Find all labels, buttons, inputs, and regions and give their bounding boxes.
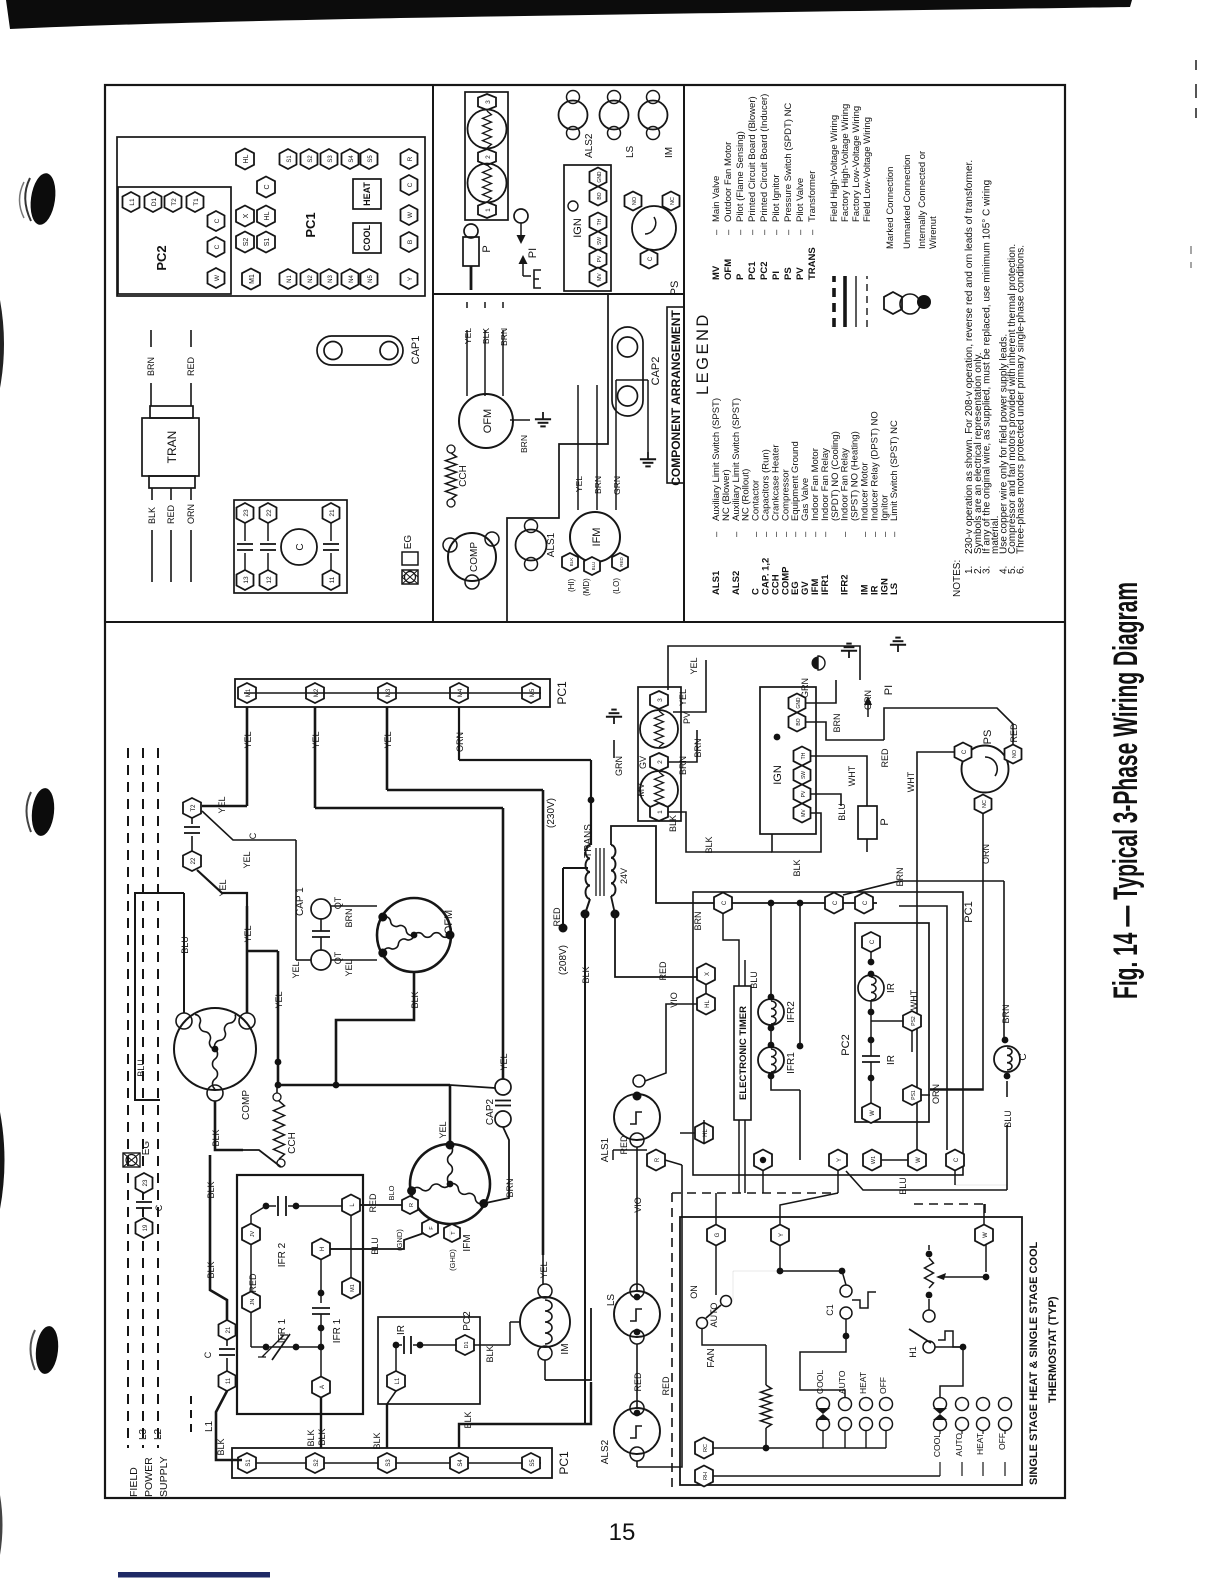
svg-text:PC1: PC1 (303, 212, 318, 237)
svg-text:C: C (264, 184, 271, 189)
svg-text:24V: 24V (619, 868, 629, 884)
svg-text:TRAN: TRAN (165, 431, 179, 464)
svg-text:(HI): (HI) (567, 578, 576, 592)
svg-text:IFR2: IFR2 (840, 574, 851, 595)
svg-text:YEL: YEL (217, 796, 227, 813)
svg-text:–: – (889, 531, 900, 537)
svg-text:BLK: BLK (216, 1438, 226, 1455)
svg-text:BRN: BRN (146, 357, 156, 376)
svg-text:P: P (735, 273, 746, 280)
svg-text:C: C (248, 832, 258, 839)
svg-text:BLK: BLK (206, 1261, 216, 1278)
svg-text:RED: RED (619, 557, 624, 567)
svg-text:LS: LS (606, 1294, 617, 1307)
svg-text:–: – (783, 229, 794, 235)
svg-text:LS: LS (625, 145, 636, 158)
svg-text:YEL: YEL (463, 328, 473, 344)
svg-text:PC1: PC1 (555, 681, 569, 705)
svg-text:AUTO: AUTO (954, 1433, 964, 1457)
svg-text:CAP1: CAP1 (410, 336, 422, 365)
svg-text:MV: MV (711, 265, 722, 280)
svg-text:BLK: BLK (306, 1429, 316, 1446)
svg-text:RED: RED (633, 1372, 643, 1392)
svg-text:N5: N5 (368, 275, 374, 283)
svg-text:23: 23 (243, 509, 250, 517)
svg-text:YEL: YEL (243, 925, 253, 942)
svg-text:15: 15 (609, 1519, 636, 1546)
svg-text:NC: NC (982, 800, 988, 808)
svg-text:ALS2: ALS2 (731, 571, 742, 595)
svg-text:YEL: YEL (274, 991, 284, 1008)
svg-text:2: 2 (485, 155, 492, 159)
svg-text:–: – (840, 531, 851, 537)
svg-text:BLK: BLK (372, 1432, 382, 1449)
svg-text:BLK: BLK (147, 507, 157, 524)
svg-text:Three-phase motors protected u: Three-phase motors protected under prima… (1016, 245, 1027, 554)
svg-text:C: C (722, 900, 728, 905)
svg-text:JV: JV (250, 1230, 256, 1237)
svg-text:S4: S4 (349, 155, 355, 163)
svg-text:BLK: BLK (481, 328, 491, 344)
svg-text:ORN: ORN (931, 1084, 941, 1104)
svg-text:23: 23 (143, 1179, 149, 1186)
svg-text:CAP2: CAP2 (485, 1099, 496, 1126)
svg-text:BO: BO (796, 718, 802, 725)
svg-text:ALS2: ALS2 (600, 1439, 611, 1464)
svg-text:H: H (320, 1247, 326, 1251)
svg-text:POWER: POWER (143, 1457, 155, 1497)
svg-text:ON: ON (689, 1285, 699, 1299)
svg-text:C: C (214, 244, 221, 249)
svg-text:BLK: BLK (668, 815, 678, 832)
svg-text:11: 11 (329, 576, 336, 583)
svg-text:Marked Connection: Marked Connection (885, 167, 896, 249)
svg-text:C1: C1 (825, 1304, 835, 1316)
svg-text:L1: L1 (395, 1377, 401, 1384)
svg-text:B: B (407, 240, 414, 244)
svg-text:BLK: BLK (206, 1181, 216, 1198)
svg-text:NO: NO (632, 196, 638, 205)
svg-text:COMPONENT ARRANGEMENT: COMPONENT ARRANGEMENT (669, 310, 683, 486)
svg-text:N1: N1 (287, 275, 293, 283)
svg-text:S3: S3 (328, 155, 334, 163)
svg-text:BRN: BRN (499, 328, 509, 346)
svg-text:C: C (648, 256, 654, 261)
svg-text:R: R (655, 1157, 661, 1162)
svg-text:Factory Low-Voltage Wiring: Factory Low-Voltage Wiring (851, 106, 862, 222)
svg-text:YEL: YEL (218, 879, 228, 896)
svg-text:S1: S1 (246, 1459, 252, 1467)
svg-text:C: C (870, 939, 876, 944)
svg-text:COOL: COOL (932, 1433, 942, 1457)
svg-text:G: G (715, 1232, 721, 1237)
svg-text:ALS1: ALS1 (711, 570, 722, 595)
svg-text:RED: RED (186, 356, 196, 376)
svg-text:BLU: BLU (1003, 1110, 1013, 1128)
svg-text:S1: S1 (264, 238, 271, 247)
svg-text:WHT: WHT (847, 765, 857, 786)
svg-text:S5: S5 (368, 155, 374, 163)
svg-text:IR: IR (396, 1325, 407, 1335)
svg-text:BLK: BLK (792, 859, 802, 876)
svg-text:22: 22 (191, 857, 197, 864)
svg-text:YEL: YEL (291, 961, 301, 978)
svg-text:C: C (1018, 1053, 1029, 1060)
svg-text:Pressure Switch (SPDT) NC: Pressure Switch (SPDT) NC (783, 103, 794, 222)
svg-text:YEL: YEL (242, 851, 252, 868)
svg-text:C: C (154, 1204, 164, 1211)
svg-text:HL: HL (243, 154, 250, 163)
svg-text:(GHD): (GHD) (448, 1249, 457, 1271)
svg-text:(MD): (MD) (582, 578, 591, 596)
svg-text:S4: S4 (458, 1459, 464, 1467)
svg-text:Field High-Voltage Wiring: Field High-Voltage Wiring (829, 115, 840, 222)
svg-text:WHT: WHT (909, 989, 919, 1010)
svg-text:RED: RED (552, 907, 562, 927)
svg-text:VIO: VIO (669, 992, 679, 1008)
svg-text:NO: NO (1012, 749, 1018, 758)
svg-text:PV: PV (597, 255, 603, 262)
svg-text:PC1: PC1 (963, 901, 975, 922)
svg-text:BRN: BRN (593, 476, 603, 494)
svg-text:ALS1: ALS1 (546, 532, 557, 557)
svg-text:COOL: COOL (362, 224, 372, 251)
svg-text:YEL: YEL (499, 1053, 509, 1070)
svg-text:W: W (214, 274, 221, 281)
svg-text:–: – (735, 229, 746, 235)
svg-text:22: 22 (266, 509, 273, 517)
svg-text:BLO: BLO (387, 1185, 396, 1200)
svg-text:–: – (723, 229, 734, 235)
svg-text:ALS1: ALS1 (600, 1137, 611, 1162)
svg-text:–: – (747, 229, 758, 235)
svg-text:Unmarked Connection: Unmarked Connection (902, 154, 913, 249)
svg-text:IFR1: IFR1 (820, 574, 831, 595)
svg-text:H1: H1 (908, 1346, 918, 1358)
svg-text:S3: S3 (386, 1459, 392, 1467)
svg-text:P: P (481, 245, 493, 252)
svg-text:BO: BO (597, 192, 603, 199)
svg-text:Printed Circuit Board (Inducer: Printed Circuit Board (Inducer) (759, 94, 770, 222)
svg-text:S1: S1 (287, 155, 293, 163)
svg-text:CCH: CCH (458, 465, 469, 487)
svg-text:21: 21 (226, 1326, 232, 1333)
svg-text:R: R (409, 1203, 415, 1207)
svg-text:N3: N3 (328, 275, 334, 283)
svg-text:Internally Connected or: Internally Connected or (917, 151, 928, 249)
svg-text:T2: T2 (191, 804, 197, 812)
svg-text:W: W (407, 211, 414, 218)
svg-text:TRANS: TRANS (807, 247, 818, 280)
svg-text:S2: S2 (243, 238, 250, 247)
svg-text:R: R (407, 156, 414, 161)
svg-text:ORN: ORN (186, 504, 196, 524)
svg-text:13: 13 (243, 576, 250, 584)
svg-text:OFM: OFM (482, 409, 494, 433)
svg-text:Fig. 14 — Typical 3-Phase Wiri: Fig. 14 — Typical 3-Phase Wiring Diagram (1107, 582, 1145, 999)
svg-text:GRN: GRN (614, 756, 624, 776)
svg-text:PS: PS (982, 730, 994, 745)
svg-text:Wirenut: Wirenut (928, 216, 939, 249)
svg-text:L3: L3 (138, 1428, 149, 1440)
svg-text:BLK: BLK (485, 1345, 495, 1362)
svg-text:HEAT: HEAT (975, 1433, 985, 1455)
svg-text:HL: HL (264, 211, 271, 220)
svg-text:N2: N2 (308, 275, 314, 283)
svg-text:C: C (214, 218, 221, 223)
svg-text:–: – (731, 531, 742, 537)
svg-text:PS1: PS1 (911, 1090, 917, 1100)
svg-text:Y: Y (779, 1233, 785, 1237)
svg-text:BRN: BRN (693, 911, 703, 930)
svg-text:BLK: BLK (704, 836, 714, 853)
svg-text:YEL: YEL (383, 731, 393, 748)
svg-text:Transformer: Transformer (807, 171, 818, 222)
svg-text:–: – (759, 229, 770, 235)
svg-text:PC2: PC2 (759, 262, 770, 280)
svg-text:YEL: YEL (243, 731, 253, 748)
svg-text:X: X (705, 972, 711, 976)
svg-text:EG: EG (403, 535, 414, 550)
svg-text:VIO: VIO (633, 1197, 643, 1213)
svg-text:IFM: IFM (462, 1234, 473, 1251)
svg-text:CCH: CCH (287, 1132, 298, 1154)
svg-text:Limit Switch (SPST) NC: Limit Switch (SPST) NC (889, 420, 900, 521)
svg-text:S2: S2 (314, 1459, 320, 1467)
svg-text:C: C (863, 900, 869, 905)
svg-text:RED: RED (880, 748, 890, 768)
svg-text:W: W (870, 1110, 876, 1116)
svg-text:Y: Y (837, 1158, 843, 1162)
svg-text:RED: RED (661, 1376, 671, 1396)
svg-text:NC: NC (670, 197, 676, 205)
svg-text:–: – (711, 531, 722, 537)
svg-text:HEAT: HEAT (858, 1372, 868, 1394)
svg-text:–: – (820, 531, 831, 537)
svg-text:BLU: BLU (837, 803, 847, 821)
svg-text:PS2: PS2 (911, 1016, 917, 1026)
svg-text:HEAT: HEAT (362, 182, 372, 206)
svg-text:2: 2 (657, 760, 664, 764)
svg-text:Pilot Ignitor: Pilot Ignitor (771, 174, 782, 222)
svg-text:19: 19 (143, 1224, 149, 1231)
svg-text:Pilot Valve: Pilot Valve (795, 178, 806, 222)
svg-text:IM: IM (560, 1343, 571, 1354)
svg-text:MV: MV (636, 783, 646, 797)
svg-text:RED: RED (248, 1273, 258, 1293)
svg-text:Field Low-Voltage Wiring: Field Low-Voltage Wiring (862, 117, 873, 222)
svg-text:YEL: YEL (574, 476, 584, 492)
svg-text:IR: IR (886, 1055, 897, 1065)
svg-text:BLK: BLK (569, 558, 574, 567)
svg-text:Main Valve: Main Valve (711, 176, 722, 222)
svg-text:W: W (916, 1157, 922, 1163)
svg-text:PI: PI (883, 685, 895, 695)
svg-text:OFF: OFF (997, 1433, 1007, 1450)
svg-text:YEL: YEL (689, 657, 699, 674)
svg-text:PI: PI (771, 271, 782, 280)
svg-text:11: 11 (226, 1377, 232, 1384)
svg-text:Factory High-Voltage Wiring: Factory High-Voltage Wiring (840, 104, 851, 222)
svg-text:IGN: IGN (572, 218, 584, 238)
svg-text:–: – (711, 229, 722, 235)
svg-text:BRN: BRN (1001, 1004, 1011, 1023)
svg-text:IFR 2: IFR 2 (277, 1242, 288, 1267)
svg-text:ALS2: ALS2 (584, 133, 595, 158)
svg-text:C: C (407, 182, 414, 187)
svg-text:RED: RED (368, 1193, 378, 1213)
svg-text:D1: D1 (464, 1341, 470, 1348)
svg-text:(230V): (230V) (546, 798, 557, 828)
svg-text:S2: S2 (308, 155, 314, 163)
svg-text:D1: D1 (151, 197, 158, 206)
svg-text:NOTES:: NOTES: (952, 560, 963, 597)
svg-text:BRN: BRN (344, 908, 354, 927)
svg-text:CAP2: CAP2 (650, 357, 662, 386)
svg-text:YEL: YEL (344, 959, 354, 976)
svg-text:IR: IR (886, 983, 897, 993)
svg-text:IFM: IFM (591, 528, 603, 547)
svg-text:YEL: YEL (311, 731, 321, 748)
svg-text:L1: L1 (204, 1420, 215, 1432)
svg-text:21: 21 (329, 509, 336, 517)
svg-text:PV: PV (801, 790, 807, 797)
svg-text:BLU: BLU (136, 1059, 146, 1077)
svg-text:BRN: BRN (678, 756, 688, 775)
svg-text:BRN: BRN (519, 435, 529, 453)
svg-text:SW: SW (801, 771, 807, 779)
svg-text:ELECTRONIC TIMER: ELECTRONIC TIMER (738, 1006, 749, 1100)
svg-text:M1: M1 (249, 274, 256, 284)
svg-text:RED: RED (1009, 723, 1019, 743)
svg-text:PC2: PC2 (462, 1311, 473, 1331)
svg-text:EG: EG (141, 1141, 152, 1156)
svg-text:IM: IM (664, 147, 675, 158)
svg-text:3: 3 (485, 100, 492, 104)
svg-text:C: C (833, 900, 839, 905)
svg-text:QT: QT (333, 951, 343, 964)
svg-text:PS: PS (669, 281, 681, 296)
svg-text:BLU: BLU (898, 1177, 908, 1195)
svg-text:PC2: PC2 (154, 245, 169, 270)
svg-text:–: – (807, 229, 818, 235)
svg-text:FAN: FAN (706, 1348, 717, 1367)
svg-text:If any of the original wire, a: If any of the original wire, as supplied… (982, 180, 993, 554)
svg-text:BRN: BRN (895, 867, 905, 886)
svg-text:YEL: YEL (539, 1261, 549, 1278)
svg-text:AUTO: AUTO (709, 1303, 719, 1328)
svg-text:–: – (771, 229, 782, 235)
svg-text:YEL: YEL (678, 689, 688, 706)
svg-text:LS: LS (889, 583, 900, 595)
svg-text:6.: 6. (1016, 566, 1027, 574)
svg-text:SUPPLY: SUPPLY (158, 1456, 170, 1497)
svg-text:RED: RED (166, 504, 176, 524)
svg-text:BRN: BRN (693, 738, 703, 757)
svg-text:RH: RH (703, 1472, 709, 1480)
svg-text:–: – (795, 229, 806, 235)
svg-text:W1: W1 (871, 1156, 877, 1164)
svg-text:T2: T2 (171, 198, 178, 206)
svg-text:IGN: IGN (772, 765, 784, 785)
svg-text:GND: GND (597, 171, 603, 183)
svg-text:TH: TH (597, 218, 603, 225)
svg-text:P: P (879, 818, 891, 825)
svg-text:BLU: BLU (749, 971, 759, 989)
svg-text:S5: S5 (530, 1459, 536, 1467)
svg-text:3.: 3. (982, 566, 993, 574)
svg-text:PC2: PC2 (840, 1034, 852, 1055)
svg-text:PI: PI (527, 248, 539, 258)
svg-text:PC1: PC1 (557, 1451, 571, 1475)
svg-text:C: C (295, 543, 306, 550)
svg-text:MV: MV (801, 809, 807, 817)
svg-text:W: W (983, 1232, 989, 1238)
svg-text:TH: TH (801, 752, 807, 759)
svg-text:1: 1 (657, 810, 664, 814)
svg-text:(GND): (GND) (395, 1229, 404, 1251)
svg-text:IFR2: IFR2 (786, 1001, 797, 1023)
svg-text:C: C (203, 1351, 213, 1358)
svg-text:GV: GV (638, 756, 648, 769)
svg-text:BLU: BLU (591, 562, 596, 571)
svg-text:(208V): (208V) (558, 945, 569, 975)
svg-text:GRN: GRN (612, 476, 622, 495)
svg-text:L1: L1 (129, 198, 136, 206)
svg-text:12: 12 (266, 576, 273, 584)
svg-text:PV: PV (682, 712, 692, 724)
svg-text:THERMOSTAT (TYP): THERMOSTAT (TYP) (1047, 1296, 1059, 1403)
svg-text:FIELD: FIELD (128, 1467, 140, 1497)
svg-text:OFM: OFM (723, 259, 734, 280)
svg-text:YEL: YEL (438, 1121, 448, 1138)
svg-text:PC1: PC1 (747, 261, 758, 280)
svg-text:GRN: GRN (800, 678, 810, 698)
svg-text:LEGEND: LEGEND (694, 312, 712, 395)
svg-text:QT: QT (333, 896, 343, 909)
svg-text:PV: PV (795, 267, 806, 280)
svg-text:BRN: BRN (832, 713, 842, 732)
svg-text:SW: SW (597, 237, 603, 245)
svg-text:C: C (962, 749, 968, 754)
svg-text:HL: HL (705, 1000, 711, 1008)
svg-text:3: 3 (657, 698, 664, 702)
svg-text:Pilot (Flame Sensing): Pilot (Flame Sensing) (735, 131, 746, 222)
svg-text:MV: MV (597, 273, 603, 281)
svg-text:IFR 1: IFR 1 (277, 1318, 288, 1343)
svg-text:BLK: BLK (211, 1129, 221, 1146)
svg-text:N4: N4 (349, 275, 355, 283)
svg-text:BLK: BLK (317, 1428, 327, 1445)
svg-text:ORN: ORN (455, 732, 465, 752)
svg-text:PS: PS (783, 267, 794, 280)
svg-text:BLK: BLK (410, 991, 420, 1008)
svg-text:COMP: COMP (469, 542, 480, 572)
svg-text:WHT: WHT (906, 771, 916, 792)
svg-text:X: X (243, 213, 250, 218)
svg-text:COMP: COMP (241, 1090, 252, 1120)
svg-text:(LO): (LO) (612, 578, 621, 594)
svg-text:OFM: OFM (443, 910, 455, 934)
svg-text:Outdoor Fan Motor: Outdoor Fan Motor (723, 142, 734, 222)
svg-text:RC: RC (703, 1444, 709, 1452)
svg-text:BLK: BLK (463, 1411, 473, 1428)
svg-text:BLU: BLU (370, 1237, 380, 1255)
svg-text:M1: M1 (350, 1284, 356, 1292)
svg-text:Printed Circuit Board (Blower): Printed Circuit Board (Blower) (747, 96, 758, 222)
svg-text:1: 1 (485, 208, 492, 212)
svg-text:RED: RED (658, 961, 668, 981)
